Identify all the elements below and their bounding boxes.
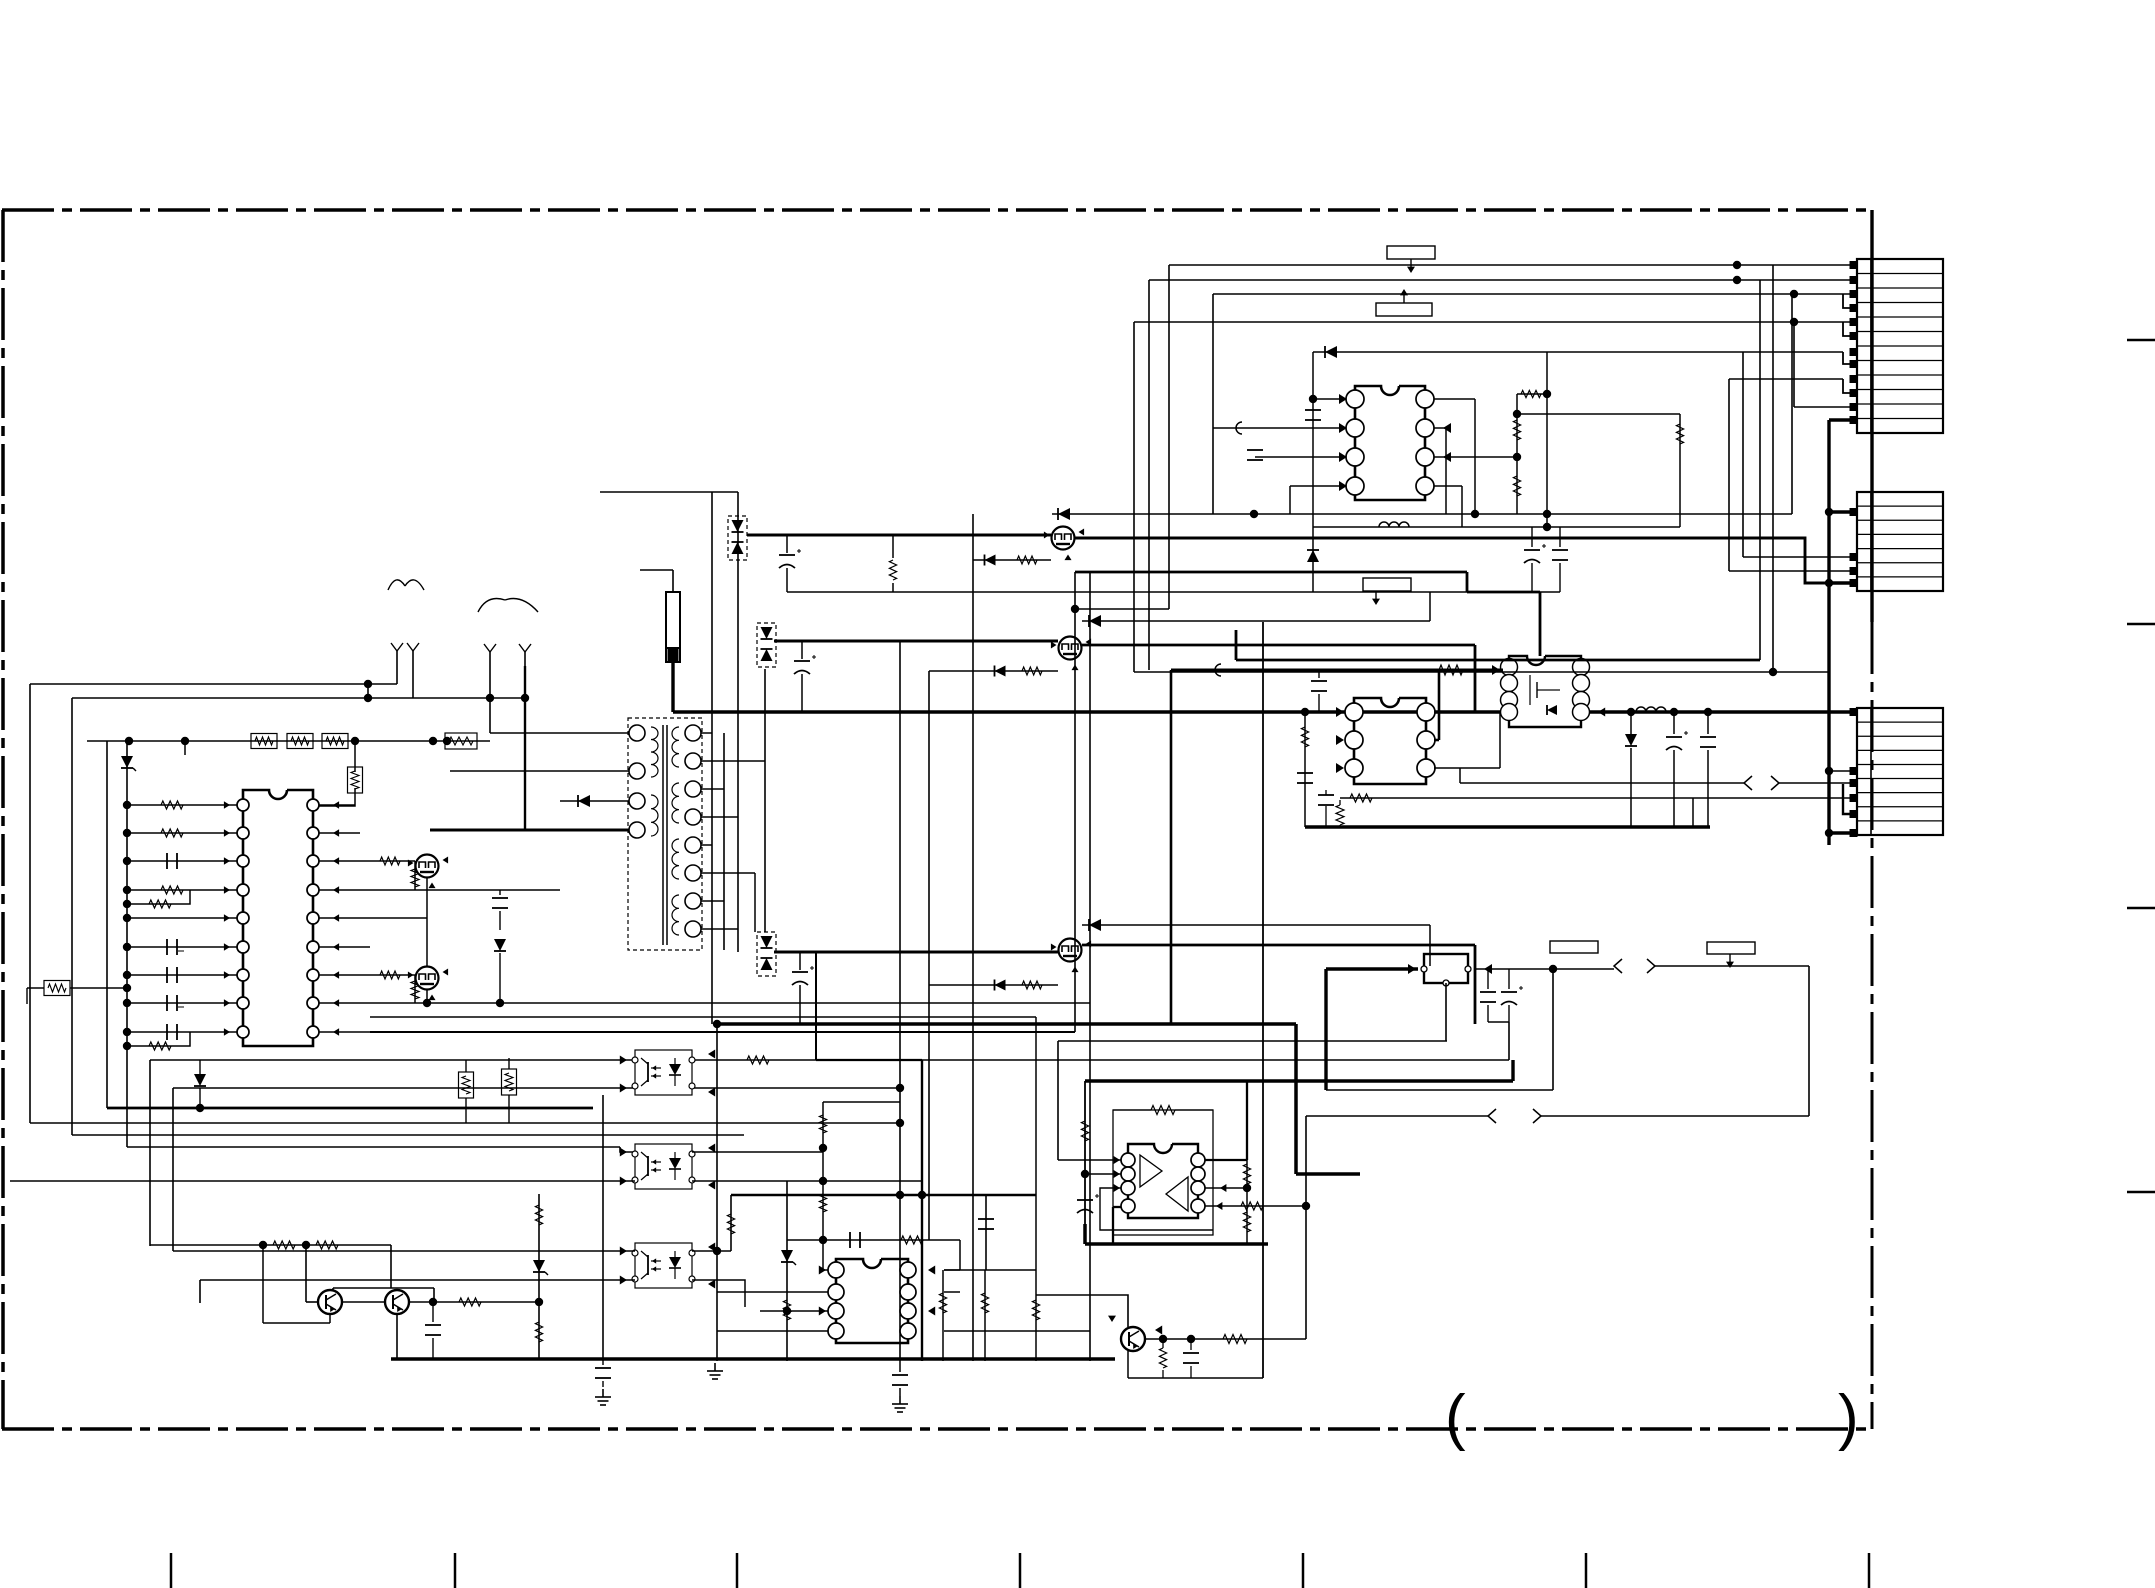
svg-text:(: (: [1445, 1383, 1466, 1452]
svg-text:): ): [1838, 1383, 1859, 1452]
